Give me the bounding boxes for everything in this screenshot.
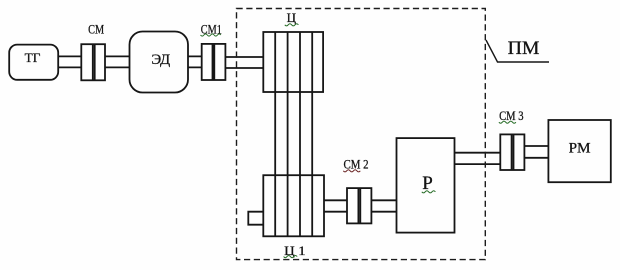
block RM (РМ working machine) bbox=[548, 120, 610, 182]
wire shaft TG to CM bbox=[58, 56, 82, 67]
squiggle under CM1 bbox=[201, 34, 221, 36]
coupling CM2 (СМ 2) bbox=[347, 188, 371, 223]
block R (Р reducer) bbox=[397, 138, 455, 233]
svg-text:ПМ: ПМ bbox=[508, 38, 540, 59]
svg-text:ЭД: ЭД bbox=[151, 52, 170, 68]
block ED (ЭД electric motor) bbox=[130, 32, 189, 93]
coupling CM3 (СМ 3) bbox=[500, 134, 524, 170]
svg-text:СМ: СМ bbox=[88, 23, 104, 37]
block TG (ТГ generator) bbox=[9, 45, 58, 80]
wire shaft R to CM3 bbox=[455, 153, 501, 164]
block C (Ц gear train) bbox=[263, 32, 323, 92]
leader line PM bbox=[486, 40, 549, 62]
svg-text:РМ: РМ bbox=[569, 141, 591, 157]
wire shaft ED to CM1 bbox=[188, 56, 202, 67]
stub on C1 left bbox=[248, 212, 263, 225]
dashed boundary PM group bbox=[237, 9, 486, 260]
wire shaft C1 to CM2 bbox=[324, 200, 347, 211]
wire vertical shafts C to C1 bbox=[275, 32, 312, 236]
coupling CM (СМ) bbox=[81, 44, 105, 80]
wire shaft CM to ED bbox=[105, 56, 130, 67]
wire shaft CM2 to R bbox=[371, 200, 396, 211]
svg-text:ТГ: ТГ bbox=[25, 51, 41, 65]
squiggle under CM3 bbox=[499, 121, 516, 123]
block C1 (Ц 1 gear train) bbox=[263, 175, 324, 236]
wire shaft CM3 to RM bbox=[524, 146, 548, 158]
squiggle under C bbox=[285, 24, 299, 26]
squiggle under C1 bbox=[284, 256, 298, 258]
coupling CM1 (СМ 1) bbox=[202, 44, 226, 80]
squiggle under CM2 bbox=[343, 170, 360, 172]
squiggle under R bbox=[422, 191, 436, 193]
svg-text:Ц: Ц bbox=[287, 10, 297, 25]
wire shaft CM1 to C block bbox=[225, 57, 263, 68]
